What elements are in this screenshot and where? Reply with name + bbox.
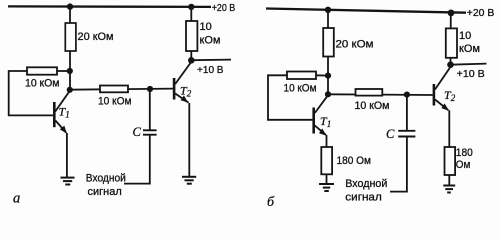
node: feedback tap (left): [67, 68, 73, 74]
wire: collector resistor to +10V node (right): [450, 58, 452, 65]
node: rail junction at 20k (left): [67, 3, 73, 9]
+20V rail (left circuit): [8, 5, 211, 8]
node: T1 collector junction (right): [325, 91, 331, 97]
node: T1 collector junction (left): [67, 87, 73, 93]
T2 collector lead (right): [435, 67, 450, 90]
resistor 180 Ом emitter T1 (right): [321, 147, 332, 174]
svg-text:T1: T1: [320, 114, 331, 129]
wire: feedback resistor right lead (left): [57, 70, 70, 72]
svg-text:+20 В: +20 В: [212, 2, 236, 14]
svg-text:а: а: [13, 191, 20, 207]
capacitor C (right): bottom plate: [398, 136, 415, 138]
capacitor C (left): top plate: [143, 129, 157, 131]
node: +10V tap (right): [447, 61, 454, 68]
value label 180 / Ом (right T2): [456, 147, 473, 171]
svg-text:сигнал: сигнал: [345, 191, 382, 203]
svg-text:кОм: кОм: [459, 43, 480, 55]
svg-text:сигнал: сигнал: [88, 186, 122, 198]
transistor T2 (left): base bar: [173, 78, 176, 100]
svg-text:Входной: Входной: [345, 178, 387, 190]
svg-text:20 кОм: 20 кОм: [78, 31, 114, 43]
node: capacitor tap (left): [147, 86, 153, 92]
svg-text:Входной: Входной: [86, 173, 126, 185]
wire: feedback loop to T1 base (right): [268, 75, 312, 120]
wire: 180 resistor to ground (right T2): [448, 175, 450, 186]
node: rail junction at collector resistor (right): [448, 10, 455, 17]
svg-text:180 Ом: 180 Ом: [337, 155, 372, 167]
svg-text:+20 В: +20 В: [467, 7, 495, 19]
wire: rail to 20k resistor top (right): [327, 10, 329, 28]
svg-text:10 кОм: 10 кОм: [355, 100, 390, 112]
svg-text:10 кОм: 10 кОм: [284, 82, 317, 94]
resistor 20 кОм (right): [323, 28, 334, 57]
T2 emitter lead with arrow (right): [435, 100, 449, 111]
svg-text:10 кОм: 10 кОм: [98, 95, 132, 107]
svg-text:Ом: Ом: [456, 159, 471, 171]
label Входной сигнал (left): [86, 173, 126, 198]
+10V rail (left): [191, 59, 231, 62]
T2 emitter lead with arrow (left): [175, 94, 188, 103]
node: +10V tap (left): [188, 57, 195, 64]
ground under T1 180 (right): [319, 184, 334, 191]
wire: capacitor tap down (left): [149, 89, 151, 130]
node: feedback tap (right): [325, 73, 331, 79]
wire: capacitor to input stub (right): [390, 137, 407, 192]
capacitor C (left): bottom plate: [143, 134, 157, 136]
svg-text:б: б: [267, 195, 275, 210]
wire: feedback loop to T1 base (left): [9, 71, 53, 115]
wire: collector resistor to +10V node (left): [190, 51, 192, 60]
node: rail junction at 20k (right): [325, 7, 331, 13]
T2 collector lead (left): [175, 63, 191, 85]
wire: rail to collector resistor top (left): [190, 7, 192, 21]
svg-text:T2: T2: [180, 84, 192, 99]
svg-text:C: C: [386, 127, 395, 141]
resistor 10 кОм base (right): [356, 89, 383, 96]
+10V rail (right): [451, 64, 487, 65]
svg-text:T1: T1: [59, 105, 70, 120]
wire: 20k bottom to base node (left): [69, 51, 71, 90]
transistor T2 (right): base bar: [433, 84, 436, 106]
ground under T2 (left): [182, 177, 196, 184]
wire: T2 emitter to 180 resistor (right): [448, 110, 450, 147]
T1 collector lead (left): [55, 91, 70, 112]
resistor 180 Ом emitter T2 (right): [445, 147, 456, 175]
capacitor C (right): top plate: [398, 130, 415, 132]
wire: T1 emitter to ground (left): [66, 133, 68, 177]
T1 emitter lead with arrow (right): [315, 126, 327, 136]
resistor 20 кОм (left): [65, 23, 76, 51]
T1 emitter lead with arrow (left): [55, 121, 67, 134]
wire: feedback resistor right lead (right): [316, 74, 328, 76]
svg-text:T2: T2: [444, 88, 456, 103]
svg-text:180: 180: [456, 147, 473, 159]
svg-text:10: 10: [200, 21, 212, 33]
svg-text:20 кОм: 20 кОм: [336, 38, 374, 50]
node: capacitor tap (right): [404, 92, 410, 98]
wire: rail to collector resistor top (right): [450, 13, 452, 29]
+20V rail (right circuit): [266, 9, 466, 13]
wire: base node to T2 base (left): [70, 89, 173, 90]
wire: base node to T2 base (right): [328, 93, 433, 96]
wire: capacitor tap down (right): [406, 95, 408, 131]
resistor 10 кОм collector (right): [446, 28, 457, 57]
svg-text:C: C: [133, 125, 142, 139]
resistor 10 кОм feedback (left): [27, 67, 57, 74]
wire: T1 emitter to 180 resistor (right): [326, 135, 328, 147]
transistor T1 (right): base bar: [312, 108, 315, 134]
resistor 10 кОм base (left): [100, 86, 128, 93]
value label 10 / кОм collector (right): [459, 30, 480, 55]
wire: T2 emitter to ground (left): [188, 103, 190, 176]
svg-text:+10 В: +10 В: [197, 64, 224, 76]
ground under T1 (left): [61, 178, 75, 185]
value label 10 / кОм collector (left): [200, 21, 221, 47]
svg-text:10 кОм: 10 кОм: [25, 78, 60, 90]
ground under T2 180 (right): [443, 186, 455, 193]
wire: rail to 20k resistor top (left): [69, 7, 71, 23]
resistor 10 кОм feedback (right): [287, 72, 316, 80]
transistor T1 (left): base bar: [53, 102, 56, 127]
wire: 180 resistor to ground (right T1): [326, 174, 328, 184]
svg-text:10: 10: [459, 30, 471, 42]
label Входной сигнал (right): [345, 178, 387, 203]
resistor 10 кОм collector (left): [186, 21, 197, 51]
T1 collector lead (right): [315, 95, 328, 113]
svg-text:+10 В: +10 В: [457, 68, 485, 80]
wire: capacitor to input stub (left): [124, 135, 150, 184]
wire: 20k bottom to base node (right): [327, 57, 329, 95]
svg-text:кОм: кОм: [200, 35, 221, 47]
node: rail junction at collector resistor (left): [188, 4, 194, 10]
